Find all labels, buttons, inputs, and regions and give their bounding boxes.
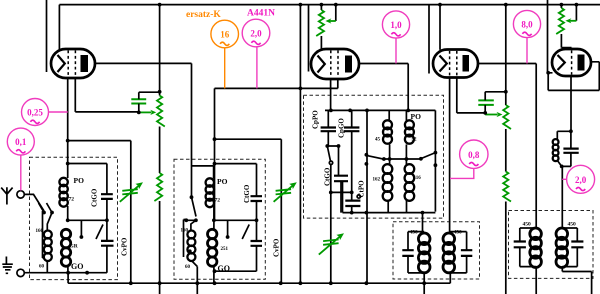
capacitor CtGO box1 — [101, 194, 113, 199]
wire V3 grid pin to IFT1 — [449, 78, 451, 234]
wire osc transformer right top — [405, 110, 407, 121]
svg-text:450: 450 — [523, 222, 532, 228]
wire V3 cathode pin to bias — [457, 78, 485, 113]
meter circle 0,1 — [7, 128, 34, 190]
coil osc lower right 116 — [405, 164, 415, 201]
wire box1 cap chain — [68, 164, 107, 273]
wire CpGO chain — [351, 110, 353, 192]
wire green cap2 stubs — [485, 92, 506, 113]
svg-text:GR: GR — [70, 244, 79, 250]
wire IFT2 right tank — [562, 228, 577, 267]
coil IFT1 secondary 450 — [443, 233, 455, 273]
tube V1 — [51, 49, 95, 78]
resistor green R4 — [503, 172, 511, 202]
capacitor CtGO osc — [334, 176, 348, 182]
wire box2 GR coil top/bottom — [213, 207, 215, 284]
wire osc to IFT1 — [422, 213, 424, 233]
capacitor IFT1 right — [461, 250, 472, 256]
svg-text:PO: PO — [411, 112, 422, 121]
capacitor CtPO osc — [345, 201, 360, 206]
capacitor CtPO box2 — [251, 241, 263, 246]
wire top HT rail — [59, 5, 600, 50]
svg-text:160: 160 — [36, 229, 44, 234]
resistor green R3 potentiometer — [503, 105, 511, 129]
svg-text:1,0: 1,0 — [390, 20, 402, 30]
svg-text:ersatz-K: ersatz-K — [186, 10, 221, 20]
resistor green potentiometer P1 — [316, 10, 324, 36]
capacitor RC filter — [563, 149, 578, 153]
switch osc tap — [421, 153, 436, 159]
coil osc upper right 52 — [405, 120, 414, 143]
switch osc GO — [327, 146, 330, 161]
variable capacitor green CvO oscillator — [319, 233, 344, 254]
wire RC filter — [557, 131, 571, 228]
wire long vertical x300 — [299, 5, 301, 284]
capacitor CpGO — [344, 128, 359, 132]
svg-text:162: 162 — [373, 178, 381, 183]
svg-text:52: 52 — [412, 138, 418, 143]
svg-text:2,0: 2,0 — [575, 175, 587, 185]
svg-text:8,0: 8,0 — [521, 20, 533, 30]
coil 160-60 box1 — [44, 231, 52, 262]
svg-text:0,25: 0,25 — [27, 108, 43, 118]
wire osc bottom bus — [343, 181, 436, 212]
coil IFT2 primary 450 — [530, 228, 542, 268]
wire IFT1 left tank — [408, 232, 424, 294]
wire V1 grid pin into box1 — [67, 78, 69, 178]
wire V4 diode loop — [548, 62, 599, 91]
terminal antenna — [17, 191, 24, 198]
svg-text:251: 251 — [221, 247, 229, 252]
meter circle 16 — [211, 20, 239, 88]
svg-text:CtGO: CtGO — [91, 188, 99, 207]
wire CpPO chain — [327, 110, 338, 146]
dashed box oscillator assembly — [304, 95, 444, 218]
dashed box antenna-coil assembly — [30, 157, 118, 279]
coil 160-60 box2 — [187, 231, 195, 262]
wire potentiometer2 chain to V4 top — [561, 5, 576, 50]
wire branch to cap chain box2 — [215, 163, 257, 165]
wire rail to V2 left — [308, 5, 310, 72]
coil RC choke — [553, 139, 559, 161]
wire screen dropper line x160 — [159, 5, 161, 294]
resistor green R1 potentiometer — [157, 96, 165, 127]
svg-text:116: 116 — [414, 176, 422, 181]
svg-text:450: 450 — [454, 230, 463, 236]
switch osc x366 — [366, 110, 384, 283]
tube V2 — [311, 49, 359, 79]
svg-text:GO: GO — [218, 264, 230, 273]
wire potentiometer1 chain to V2 top — [321, 5, 335, 50]
svg-text:60: 60 — [185, 265, 191, 270]
wire box2 left column — [192, 166, 214, 217]
capacitor IFT2 right — [571, 242, 583, 248]
meter circle 0,25 — [22, 99, 68, 126]
wire box2 160-coil — [191, 261, 197, 294]
variable capacitor green CvPO box1 — [120, 182, 143, 202]
meter circle 2,0 det — [562, 165, 594, 193]
svg-text:CtPO: CtPO — [358, 180, 366, 198]
wire IFT2 output — [562, 267, 591, 294]
svg-text:A441N: A441N — [247, 9, 275, 19]
tube V3 — [433, 50, 478, 78]
wire branch to varcap2 — [215, 139, 282, 283]
wire osc coil bottoms — [388, 200, 406, 213]
switch contacts box1 — [39, 203, 104, 258]
svg-text:60: 60 — [39, 265, 45, 270]
wire x214 branch column — [214, 88, 216, 220]
wire box1 junction y220 — [68, 206, 107, 237]
wiper arrow P2 — [565, 18, 576, 23]
coil osc upper left 45 — [383, 120, 392, 143]
meter circle 8,0 — [513, 10, 540, 63]
svg-text:CpGO: CpGO — [338, 118, 346, 138]
wire box1 160-coil bottom — [46, 261, 48, 273]
svg-text:PO: PO — [74, 176, 85, 185]
wire V4 output pin — [570, 76, 572, 131]
svg-text:CvPO: CvPO — [121, 237, 129, 256]
wire branch to varcap1 — [68, 141, 131, 284]
wire rail to V3 left — [428, 5, 430, 74]
wire osc centre tap bus — [384, 145, 421, 166]
coil GO box1 — [61, 229, 70, 266]
dashed box RF-coil assembly — [174, 159, 265, 279]
wire V1 anode to coil box 2 — [95, 63, 192, 197]
meter circle 0,8 — [450, 140, 488, 178]
svg-text:45: 45 — [375, 138, 381, 143]
meter circle 2,0 — [242, 19, 270, 88]
capacitor CtPO box1 — [101, 241, 114, 246]
wire osc y192 link — [331, 191, 352, 193]
wire feed to V4 cathode from top edge — [548, 0, 553, 73]
capacitor IFT1 left — [402, 250, 413, 256]
wire green cap1 stubs — [139, 92, 160, 112]
capacitor CpPO — [321, 128, 336, 132]
wire V2 grid pin to oscillator — [330, 79, 332, 110]
wire AVC dropper x506 — [505, 5, 507, 294]
tube V4 — [552, 49, 591, 76]
wire osc transformer left drop — [388, 110, 390, 119]
wire cathode bus y88 — [215, 79, 338, 88]
capacitor CtGO box2 — [251, 196, 263, 201]
wire V2 anode to oscillator — [359, 64, 408, 111]
coil IFT2 secondary 450 — [556, 228, 568, 268]
svg-text:PO: PO — [217, 177, 228, 186]
capacitor IFT2 left — [514, 242, 526, 248]
wire feed to V1 cathode from top edge — [46, 0, 48, 72]
dashed box IF transformer 2 — [509, 211, 594, 279]
svg-text:72: 72 — [215, 198, 221, 204]
wire box2 cap chain — [256, 164, 258, 241]
svg-text:160: 160 — [181, 229, 189, 234]
wiper arrow P1 — [325, 18, 335, 23]
ground symbol — [2, 257, 13, 274]
coil GR box2 — [208, 229, 217, 266]
wire IFT2 left tank — [520, 228, 536, 294]
contact circle oscillator — [329, 161, 332, 164]
svg-text:0,8: 0,8 — [468, 150, 480, 160]
wire CtPO3 chain — [351, 192, 353, 212]
svg-text:450: 450 — [410, 230, 419, 236]
coil PO box2 — [206, 178, 214, 207]
wiper arrow R3 — [485, 112, 502, 117]
wire box2 bottom link — [215, 246, 257, 271]
switch contacts box2 — [184, 220, 257, 258]
svg-text:450: 450 — [568, 222, 577, 228]
coil PO box1 — [59, 178, 67, 207]
wire V1 cathode pin to bias — [75, 78, 139, 112]
antenna — [1, 187, 12, 204]
wiper arrow R1 — [139, 110, 157, 115]
resistor green R2 — [154, 173, 162, 201]
wire antenna to switch — [24, 194, 44, 211]
wire box2 PO coil stub — [213, 166, 215, 179]
wire earth bus — [24, 273, 107, 284]
variable capacitor green CvGO box2 — [274, 182, 297, 202]
wire IFT1 right tank — [450, 232, 467, 284]
terminal earth — [17, 269, 24, 276]
svg-text:GO: GO — [71, 262, 83, 271]
capacitor green bias V1 — [131, 99, 146, 103]
svg-text:0,1: 0,1 — [15, 137, 27, 147]
svg-text:CtGO: CtGO — [324, 167, 332, 186]
svg-text:CpPO: CpPO — [312, 110, 320, 129]
dashed box IF transformer 1 — [393, 222, 480, 279]
coil osc lower left 162 — [383, 164, 393, 201]
coil IFT1 primary 450 — [418, 233, 430, 273]
meter circle 1,0 — [382, 11, 409, 64]
capacitor green bias V3 — [478, 100, 494, 105]
wire CtGO3 chain — [339, 146, 342, 213]
wire bottom ground rail — [68, 282, 450, 284]
wire osc x331 column — [330, 165, 332, 286]
wire V3 anode to IFT2 — [478, 64, 536, 229]
wire oscillator top bus — [325, 110, 435, 211]
wire rail to V3 top — [439, 5, 441, 50]
svg-text:CtGO: CtGO — [243, 184, 251, 203]
svg-text:72: 72 — [69, 197, 75, 203]
svg-text:CvPO: CvPO — [273, 238, 281, 257]
wire box1 GO coil bottom — [67, 267, 69, 273]
svg-text:2,0: 2,0 — [250, 29, 262, 39]
resistor green potentiometer P2 — [556, 8, 564, 34]
svg-text:16: 16 — [220, 30, 230, 40]
